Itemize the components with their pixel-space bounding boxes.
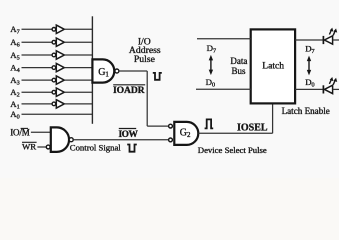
wire A4 to G1	[64, 67, 92, 69]
wire A7 input	[22, 28, 53, 30]
svg-text:Data: Data	[230, 56, 247, 66]
svg-text:IOADR: IOADR	[113, 85, 146, 96]
wire latch enable vertical	[272, 103, 274, 133]
inverter A6	[52, 38, 64, 46]
wire A3 to G1	[64, 79, 92, 81]
wire A5 input	[22, 54, 53, 56]
and gate G2 body	[174, 122, 198, 145]
latch U1 box	[251, 29, 295, 103]
wire A3 input	[22, 79, 53, 81]
control nand gate body	[51, 127, 69, 151]
svg-text:IOSEL: IOSEL	[237, 122, 268, 133]
wire D7 data bus to latch	[197, 38, 251, 40]
G2 bottom input bubble	[169, 138, 173, 142]
inverter A7	[52, 25, 64, 33]
LED D7	[323, 28, 339, 45]
negative pulse symbol at IOADR	[153, 73, 162, 80]
G1 output bubble	[115, 69, 119, 73]
wire WR to bubble	[37, 146, 46, 148]
data bus range arrow left	[209, 55, 213, 75]
wire G1 output to corner	[119, 70, 147, 72]
wire A2 to G1	[64, 91, 92, 93]
G1 input bus bar	[91, 16, 93, 124]
svg-text:IOW: IOW	[119, 130, 139, 140]
negative pulse symbol at control signal	[127, 145, 137, 152]
WR input bubble	[46, 145, 50, 149]
wire A1 input	[22, 103, 53, 105]
net label IOADR with overline	[113, 84, 145, 86]
svg-text:WR: WR	[22, 142, 36, 152]
wire D7 latch to LED	[295, 39, 323, 41]
positive pulse symbol at G2 output	[205, 119, 214, 128]
wire A6 input	[22, 41, 53, 43]
wire IOW to G2 bottom input	[73, 139, 168, 141]
inverter A5	[52, 51, 64, 59]
wire D0 data bus to latch	[196, 88, 251, 90]
wire IOADR to G2 top input	[147, 125, 168, 127]
svg-text:IO/M: IO/M	[10, 128, 30, 138]
svg-text:Bus: Bus	[231, 66, 246, 76]
inverter A2	[52, 88, 64, 96]
inverter A3	[52, 76, 64, 84]
wire A1 to G1	[64, 103, 92, 105]
data bus range arrow right	[307, 56, 311, 76]
svg-text:Pulse: Pulse	[134, 54, 155, 65]
svg-text:Control Signal: Control Signal	[70, 143, 122, 153]
LED D0	[323, 77, 339, 94]
svg-text:Latch: Latch	[262, 60, 284, 71]
wire A5 to G1	[64, 54, 92, 56]
wire IOADR vertical	[146, 71, 148, 126]
svg-text:Latch Enable: Latch Enable	[282, 106, 330, 116]
net label IOW with overline	[119, 128, 136, 130]
wire IO/M to control gate	[31, 131, 51, 133]
inverter A4	[52, 63, 64, 71]
nand gate G1 body	[92, 59, 114, 82]
control gate output bubble	[69, 138, 73, 142]
wire A7 to G1	[64, 28, 92, 30]
overline over M of IO/M	[21, 127, 28, 129]
svg-text:Device Select Pulse: Device Select Pulse	[198, 145, 267, 155]
wire A2 input	[22, 91, 53, 93]
inverter A1	[52, 100, 64, 108]
wire A0 direct to G1	[22, 113, 93, 115]
wire G2 output IOSEL	[198, 132, 272, 134]
wire A6 to G1	[64, 41, 92, 43]
wire D0 latch to LED	[295, 88, 323, 90]
wire A4 input	[22, 67, 53, 69]
G2 top input bubble	[169, 124, 173, 128]
